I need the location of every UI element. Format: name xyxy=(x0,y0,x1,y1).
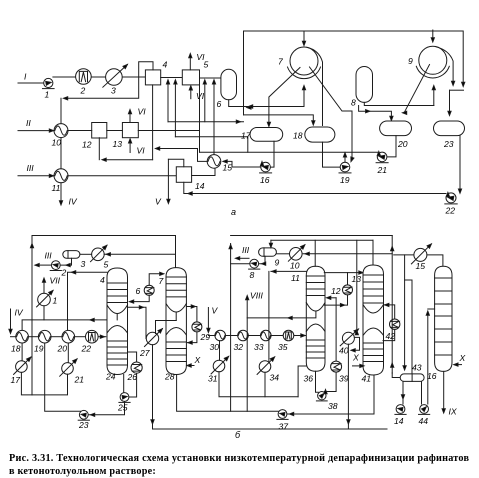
riser two into main line xyxy=(174,81,176,137)
heat exchanger 10 xyxy=(54,124,68,138)
wire from bus into HX15 xyxy=(157,149,208,162)
wire pump25 to pump23 xyxy=(89,402,125,415)
wire HX6 to column4 xyxy=(131,295,150,301)
svg-text:15: 15 xyxy=(223,163,233,173)
heater 35 xyxy=(283,330,294,341)
stream VI into box13 bottom xyxy=(129,140,131,153)
svg-text:14: 14 xyxy=(195,181,205,191)
stream III outlet middle xyxy=(237,257,250,259)
wire vessel23 to pump22 xyxy=(459,136,461,193)
wire HX15b to column16 top xyxy=(427,255,443,266)
heat exchanger 15b xyxy=(411,244,431,264)
wire vessel6 bottom to drum7 bottom xyxy=(229,100,304,107)
wire pump8 discharge to riser xyxy=(231,263,250,265)
wire bus drop to loop xyxy=(31,358,33,395)
pump 8 xyxy=(249,259,260,269)
pump 14 xyxy=(395,405,406,415)
heater 22 xyxy=(86,330,99,343)
wire HX1 to reflux line xyxy=(43,306,45,320)
riser to solvent bus xyxy=(230,244,232,412)
svg-text:23: 23 xyxy=(78,420,89,430)
heater 31 xyxy=(211,356,229,374)
svg-text:40: 40 xyxy=(339,346,349,356)
feed line through middle exchangers xyxy=(208,335,215,337)
wire HX6 to column7 top xyxy=(149,274,163,286)
wire HX42 bottom to column41 lower xyxy=(383,329,395,340)
heat exchanger 10b xyxy=(288,245,304,261)
rotary drum filter 7 xyxy=(290,47,318,75)
wire vessel18 to pump19 xyxy=(323,142,340,167)
riser one into main line xyxy=(167,81,169,122)
wire shelf to vessel 23 xyxy=(450,89,464,91)
wire box14 to HX15 bottom xyxy=(192,168,215,175)
wire box4 to box5 xyxy=(161,77,183,79)
svg-text:VI: VI xyxy=(196,91,205,101)
bottoms bus line to pump22 xyxy=(184,193,446,195)
pump 38 xyxy=(316,392,327,401)
stream IV outlet xyxy=(60,183,62,204)
svg-text:5: 5 xyxy=(104,260,109,270)
stream VIII outlet xyxy=(246,297,248,412)
wire column36 to pump38 xyxy=(316,371,319,392)
feed drop into drum 7 xyxy=(303,31,305,45)
stream I inlet line xyxy=(18,82,44,84)
svg-text:43: 43 xyxy=(412,363,422,373)
wire box14 bottom stub xyxy=(183,182,185,193)
pump 23 xyxy=(78,410,89,420)
svg-text:VI: VI xyxy=(137,146,146,156)
svg-text:V: V xyxy=(212,306,219,316)
rotary drum filter 9 xyxy=(419,46,447,74)
arrow mark on vessel6 line xyxy=(247,106,251,109)
heat exchanger 11 xyxy=(54,169,68,183)
crystallizer box 13 xyxy=(122,123,138,138)
wire column12 overhead to column41 xyxy=(324,272,362,274)
stream VI out of box13 top xyxy=(129,111,131,123)
svg-text:9: 9 xyxy=(275,258,280,268)
heat exchanger 20 xyxy=(62,330,75,343)
svg-text:41: 41 xyxy=(362,374,372,384)
svg-text:X: X xyxy=(352,353,359,363)
svg-text:X: X xyxy=(194,355,201,365)
drum 9 shell line right xyxy=(436,47,453,85)
wire HX10 to HX11 xyxy=(60,138,62,169)
svg-text:6: 6 xyxy=(217,99,222,109)
svg-text:32: 32 xyxy=(234,342,244,352)
svg-text:III: III xyxy=(45,251,53,261)
wire into HX15b xyxy=(394,254,414,256)
wire column12 draw to HX13 xyxy=(324,295,347,305)
wire drum3 to HX5 xyxy=(80,253,92,255)
svg-text:37: 37 xyxy=(279,422,290,432)
svg-text:IV: IV xyxy=(15,308,24,318)
svg-text:13: 13 xyxy=(113,139,123,149)
svg-text:17: 17 xyxy=(241,131,252,141)
column 16 xyxy=(435,266,452,371)
bottom header line xyxy=(153,428,388,430)
wire HX31 bottom xyxy=(219,372,298,397)
vessel 8 xyxy=(356,67,373,103)
svg-text:8: 8 xyxy=(250,270,255,280)
stream VI into box5 bottom xyxy=(190,87,192,99)
reflux line from column 4 bottoms xyxy=(22,320,117,331)
pump19 discharge to bus xyxy=(344,153,346,162)
riser into main line left xyxy=(204,81,206,122)
wire vessel8 bottom to drum9 bottom xyxy=(364,102,434,105)
wire pump38 to HX39 xyxy=(325,372,337,391)
wire HX19 to pump23 xyxy=(45,343,81,411)
drum 7 riser from bottom line xyxy=(303,87,305,107)
wire pump1 to HX2 to HX3 to box4 xyxy=(53,76,145,78)
svg-text:20: 20 xyxy=(397,139,408,149)
stream X into column16 xyxy=(455,364,462,366)
wire column7 bottoms to HX27 xyxy=(156,321,177,334)
pump 21 xyxy=(376,152,388,163)
pump 25 xyxy=(119,393,130,403)
svg-text:16: 16 xyxy=(427,371,437,381)
wire box5 corner drop to bus xyxy=(199,85,201,152)
wire reboil riser to column36 xyxy=(298,366,306,397)
drum 7 filtrate diagonal to vessel 17 xyxy=(269,68,300,126)
svg-text:31: 31 xyxy=(208,374,218,384)
svg-text:11: 11 xyxy=(52,183,61,193)
condensate drop wire to drum43 xyxy=(404,255,406,369)
chiller 26 xyxy=(131,362,142,373)
heat exchanger 2 (steam heater) xyxy=(76,69,92,85)
svg-text:11: 11 xyxy=(291,273,300,283)
heat exchanger 1 xyxy=(37,291,53,307)
svg-text:18: 18 xyxy=(293,131,303,141)
svg-text:4: 4 xyxy=(163,60,168,70)
wire HX10 to box12 to box13 and right xyxy=(68,130,92,132)
heat exchanger 5 xyxy=(91,245,107,261)
stream X outlet via HX40 xyxy=(352,337,360,350)
heater 21 xyxy=(60,359,77,376)
svg-text:21: 21 xyxy=(74,375,85,385)
wire column24 to pump25 xyxy=(123,375,125,393)
heat exchanger 32 xyxy=(238,330,249,341)
vessel 17 xyxy=(250,128,283,142)
wire HX34 bottom xyxy=(264,373,266,397)
stream III inlet xyxy=(18,175,53,177)
svg-text:3: 3 xyxy=(111,86,116,96)
wire column36 top to VIII riser xyxy=(247,311,316,318)
wire column24 to HX26 xyxy=(128,352,137,362)
svg-text:10: 10 xyxy=(290,261,300,271)
wire box5 to vessel6 xyxy=(200,77,221,79)
distribution line to vessel18 top xyxy=(244,115,314,124)
heater 17 xyxy=(14,357,31,374)
vessel 23 xyxy=(434,121,465,136)
wire HX30 to HX31 xyxy=(219,341,221,360)
heat exchanger 30 xyxy=(215,330,226,341)
svg-text:19: 19 xyxy=(34,344,44,354)
wire HX18 to HX17 xyxy=(21,343,23,361)
svg-text:III: III xyxy=(27,163,35,173)
wire drum9b to pump8 xyxy=(259,256,265,263)
svg-text:1: 1 xyxy=(45,90,50,100)
svg-text:VI: VI xyxy=(196,52,205,62)
stream VII outlet xyxy=(43,279,45,293)
svg-text:12: 12 xyxy=(331,286,341,296)
wire column41 bottoms xyxy=(373,375,375,414)
svg-text:III: III xyxy=(242,245,250,255)
wire drop to HX13 xyxy=(347,273,349,285)
svg-text:39: 39 xyxy=(339,374,349,384)
riser from drum43 to overhead bus xyxy=(391,236,393,374)
stream IX outlet xyxy=(443,371,445,412)
svg-text:28: 28 xyxy=(164,372,175,382)
wire column7 to HX29 xyxy=(186,307,197,322)
heat exchanger 3 (cooler) xyxy=(103,65,128,88)
svg-text:19: 19 xyxy=(340,175,350,185)
svg-text:26: 26 xyxy=(127,372,138,382)
crystallizer box 5 xyxy=(182,70,199,85)
svg-text:2: 2 xyxy=(80,86,86,96)
svg-text:VIII: VIII xyxy=(250,291,264,301)
box4 bottom drop wire xyxy=(152,85,154,160)
svg-text:44: 44 xyxy=(419,416,429,426)
svg-text:7: 7 xyxy=(159,276,165,286)
overhead bus right section xyxy=(231,235,393,237)
feed line through exchangers to column 24 xyxy=(28,336,38,338)
heater 34 xyxy=(257,357,275,375)
heater 27 xyxy=(145,329,163,347)
svg-text:9: 9 xyxy=(408,56,413,66)
heat exchanger 19 xyxy=(38,330,51,343)
wire column4 to HX27 xyxy=(128,307,147,338)
reflux arrow into column12 left xyxy=(271,270,306,272)
svg-text:17: 17 xyxy=(11,375,22,385)
stream V drop wire xyxy=(167,159,169,202)
svg-text:23: 23 xyxy=(443,139,454,149)
crossover wire to top-right distribution xyxy=(168,121,244,123)
wire HX27 to bottom header xyxy=(152,345,154,429)
svg-text:29: 29 xyxy=(200,332,211,342)
stream IV inlet xyxy=(10,309,12,333)
wire pump16 to HX15 xyxy=(224,161,261,167)
vessel 20 xyxy=(380,121,412,136)
return arrow into column12 xyxy=(328,297,337,299)
wire column12 liquor to HX34 xyxy=(268,271,270,361)
drum 7 cake diagonal down right xyxy=(310,67,353,160)
svg-text:30: 30 xyxy=(210,342,220,352)
heat exchanger 15 xyxy=(207,155,221,169)
column 41 with stripping section xyxy=(363,265,384,375)
drum 43 xyxy=(400,374,424,382)
wire HX40 drain to header xyxy=(347,344,349,429)
overhead bus to condensers xyxy=(271,239,373,241)
chiller 13 xyxy=(343,285,353,295)
riser pump44 to column16 xyxy=(427,312,429,404)
svg-text:22: 22 xyxy=(445,206,456,216)
drum 9 riser from bottom line xyxy=(433,87,435,106)
feed drop into drum 9 xyxy=(432,30,434,41)
wire HX42 to column41 xyxy=(385,305,395,319)
svg-text:4: 4 xyxy=(100,275,105,285)
chiller 39 xyxy=(331,361,342,372)
wire riser foot to drum43 xyxy=(392,373,400,378)
svg-text:10: 10 xyxy=(52,138,62,148)
riser from HX39 to column12 xyxy=(335,298,337,361)
vessel 6 xyxy=(221,69,237,100)
svg-text:IX: IX xyxy=(449,407,457,417)
box12 bottom return wire xyxy=(98,138,100,160)
wire HX5 to column7 drop xyxy=(104,253,175,255)
pump22 suction mark xyxy=(446,192,449,196)
svg-text:а: а xyxy=(231,207,236,217)
stream X return into column41 lower xyxy=(353,365,364,367)
heater 40 xyxy=(340,329,358,346)
wire HX17 bottom loop xyxy=(21,372,67,395)
svg-text:3: 3 xyxy=(81,259,86,269)
svg-text:8: 8 xyxy=(351,98,356,108)
svg-text:V: V xyxy=(155,197,162,207)
wire HX20 to HX21 xyxy=(67,343,69,363)
wire column7 bowl stub xyxy=(175,313,177,321)
pump16 discharge mark xyxy=(260,162,263,166)
svg-text:в кетонотолуольном растворе:: в кетонотолуольном растворе: xyxy=(9,466,156,477)
svg-text:I: I xyxy=(24,72,27,82)
svg-text:38: 38 xyxy=(328,401,338,411)
chiller 6 xyxy=(144,285,154,295)
stream X into column28 xyxy=(188,365,194,367)
svg-text:33: 33 xyxy=(254,342,264,352)
pump 22 xyxy=(445,193,457,204)
pump 37 xyxy=(277,410,288,420)
wire crossover to bus xyxy=(175,137,247,152)
wire drum43 to pump14 xyxy=(402,381,404,404)
svg-text:36: 36 xyxy=(304,374,314,384)
solvent bus to column 7 top xyxy=(32,236,176,395)
svg-text:22: 22 xyxy=(81,344,92,354)
condenser line drop to drum9b xyxy=(270,240,272,246)
wire HX40 to overhead bus xyxy=(356,240,358,332)
svg-text:Рис. 3.31. Технологическая схе: Рис. 3.31. Технологическая схема установ… xyxy=(9,453,470,464)
svg-text:2: 2 xyxy=(61,268,67,278)
wire HX29 to column28 xyxy=(188,332,197,343)
column 12 with stripping section 36 xyxy=(306,266,325,371)
wire column28 bottoms to pump37 xyxy=(177,375,279,412)
svg-text:42: 42 xyxy=(386,331,396,341)
svg-text:27: 27 xyxy=(139,348,151,358)
svg-text:1: 1 xyxy=(53,296,58,306)
second drop wire to drum43 xyxy=(405,280,412,374)
svg-text:21: 21 xyxy=(377,165,388,175)
wire into HX10 top xyxy=(60,98,62,123)
drum 7 right shell line to vessel18 xyxy=(307,47,323,125)
chiller 29 xyxy=(192,322,202,332)
svg-text:25: 25 xyxy=(117,403,128,413)
svg-text:12: 12 xyxy=(82,140,92,150)
svg-text:18: 18 xyxy=(11,344,21,354)
stream III outlet left xyxy=(36,264,51,266)
column7 top feed drop xyxy=(175,236,177,268)
pump 1 xyxy=(43,78,55,88)
wire drum9b to HX10b xyxy=(276,253,289,255)
wire HX26 to pump25 xyxy=(129,373,137,397)
crystallizer box 12 xyxy=(92,123,107,139)
svg-text:34: 34 xyxy=(270,373,280,383)
solution bus line xyxy=(200,151,378,153)
svg-text:24: 24 xyxy=(105,372,116,382)
svg-text:35: 35 xyxy=(278,342,288,352)
pump 44 xyxy=(419,405,430,415)
wire column4 bowl stub xyxy=(116,314,118,320)
wire vessel8 branch to vessel 20 xyxy=(359,106,392,120)
svg-text:VI: VI xyxy=(138,107,147,117)
heat exchanger 18 xyxy=(16,330,29,343)
drum 3 xyxy=(63,251,80,259)
svg-text:15: 15 xyxy=(416,261,426,271)
drum 9b xyxy=(259,248,277,256)
wire drum3 to pump2 xyxy=(61,258,72,265)
wire vessel17 to pump16 xyxy=(271,141,274,167)
svg-text:VII: VII xyxy=(50,276,61,286)
wire vessel20 to pump21 xyxy=(387,136,396,157)
column 4 with stripping section 24 xyxy=(107,268,128,375)
svg-text:6: 6 xyxy=(136,286,141,296)
stream VI out of box5 top xyxy=(189,55,191,70)
crystallizer box 14 xyxy=(176,167,191,183)
pump 16 xyxy=(260,162,272,173)
heat exchanger 33 xyxy=(261,330,272,341)
drum 9 filtrate diagonal xyxy=(405,65,430,113)
wire drum43 to pump44 xyxy=(421,381,423,404)
recycle from box4 to HX10 xyxy=(65,62,154,99)
svg-text:II: II xyxy=(26,118,31,128)
column41 top feed drop xyxy=(372,240,374,265)
riser from HX15 into main line xyxy=(213,81,215,155)
top distribution line of diagram a xyxy=(244,31,464,115)
pump21 discharge to bus xyxy=(378,151,380,154)
vessel 18 xyxy=(305,127,335,142)
chiller 42 xyxy=(390,319,400,329)
svg-text:7: 7 xyxy=(278,57,284,67)
svg-text:X: X xyxy=(459,353,466,363)
stream V inlet xyxy=(207,308,209,332)
stream II inlet xyxy=(18,130,53,132)
crystallizer box 4 xyxy=(145,70,160,85)
svg-text:б: б xyxy=(235,430,241,440)
column 12 overhead xyxy=(314,240,316,266)
column 7 with stripping section 28 xyxy=(166,268,186,375)
svg-text:IV: IV xyxy=(69,197,78,207)
column4 reflux wire down to HX20 xyxy=(68,272,108,330)
svg-text:16: 16 xyxy=(260,175,270,185)
svg-text:20: 20 xyxy=(57,344,68,354)
pump 19 xyxy=(339,162,351,173)
svg-text:14: 14 xyxy=(394,416,404,426)
wire box14 top elbow xyxy=(168,159,183,167)
condensate line into HX10b xyxy=(303,253,392,255)
wire HX11 to box14 xyxy=(68,175,176,177)
pump 2 xyxy=(50,261,61,271)
suction line into pump37 xyxy=(287,413,374,415)
